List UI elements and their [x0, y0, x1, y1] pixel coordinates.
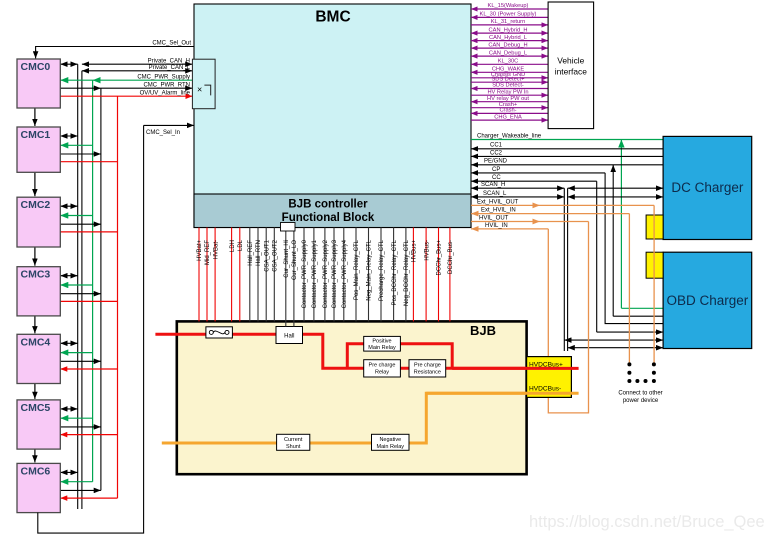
wire KL_31_return [471, 19, 548, 25]
wire SCAN bus verticals [564, 188, 567, 351]
wire CAN_Debug_L [471, 50, 548, 56]
svg-text:Precharge_Relay_CTL: Precharge_Relay_CTL [379, 239, 385, 301]
wire CMC5 CAN link [60, 408, 77, 410]
svg-text:Pos_Main_Relay_CTL: Pos_Main_Relay_CTL [354, 239, 360, 300]
resistor Pre charge Resistance [409, 360, 446, 377]
watermark [529, 513, 765, 531]
svg-text:Ext_HVIL_OUT: Ext_HVIL_OUT [477, 199, 519, 205]
svg-text:https://blog.csdn.net/Bruce_Qe: https://blog.csdn.net/Bruce_Qee [529, 513, 765, 531]
wire Cur_Shunt_LO [292, 228, 298, 327]
wire Cur_Shunt_Hi [284, 228, 290, 327]
wire CC [471, 175, 597, 181]
svg-text:Connect to other: Connect to other [618, 390, 662, 396]
svg-text:CMC0: CMC0 [21, 61, 51, 73]
wire CMC5 PWR supply link [60, 417, 92, 419]
svg-text:Vehicle: Vehicle [557, 56, 584, 66]
svg-text:LDH: LDH [230, 240, 236, 252]
wire CHG_WAKE [471, 67, 548, 73]
wire CMC6 CAN link [60, 471, 77, 473]
wire Ext_HVIL_IN vertical [628, 214, 630, 365]
wire SCAN_L to OBD [568, 347, 664, 349]
wire CMC_PWR_RTN vertical bus [100, 88, 102, 490]
block CMC6 [17, 463, 60, 512]
wire CMC2 PWR supply link [60, 215, 92, 217]
wire CMC1 alarm link [60, 161, 117, 163]
wire CMC1 to CMC2 daisy chain [34, 172, 36, 196]
wire PE/GND branch to OBD [613, 165, 663, 316]
svg-text:Main Relay: Main Relay [377, 444, 405, 450]
svg-text:Cur_Shunt_Hi: Cur_Shunt_Hi [284, 240, 290, 278]
wire CMC6 PWR supply link [60, 481, 92, 483]
wire HVBat+ [197, 228, 203, 322]
wire CMC4 alarm link [60, 368, 117, 370]
svg-text:HVBus+: HVBus+ [412, 240, 418, 263]
wire Charger_Wakeable branch to OBD [621, 140, 663, 309]
svg-text:KL_31_return: KL_31_return [491, 19, 525, 25]
wire CP branch to OBD [605, 173, 663, 324]
svg-text:CAN_Hybrid_L: CAN_Hybrid_L [489, 35, 527, 41]
svg-text:Contactor_PWR_Supply3: Contactor_PWR_Supply3 [332, 239, 338, 308]
svg-text:×: × [197, 85, 202, 95]
wire CP [471, 167, 605, 173]
wire CMC3 to CMC4 daisy chain [34, 316, 36, 333]
wire HVDC bus plus (thick red) [155, 334, 526, 368]
node Cur_Shunt pair bracket [281, 223, 296, 232]
wire HVBat- [213, 228, 219, 322]
node power-device continuation dots [618, 362, 662, 403]
wire Pos_DCChr_Relay_CTL [392, 228, 398, 322]
wire CMC_PWR_RTN [101, 82, 192, 88]
svg-text:HVIL_OUT: HVIL_OUT [479, 215, 509, 221]
fuse F1 [206, 327, 233, 338]
block CMC2 [17, 197, 60, 247]
wire Private_CAN_L [82, 65, 192, 71]
wire HVIL_IN [471, 223, 548, 229]
wire CMC_PWR_Supply vertical bus [92, 80, 94, 482]
svg-text:interface: interface [555, 67, 587, 77]
wire CC branch to OBD [597, 181, 663, 332]
svg-text:Pos_DCChr_Relay_CTL: Pos_DCChr_Relay_CTL [392, 239, 398, 305]
svg-text:HVIL_IN: HVIL_IN [485, 223, 508, 229]
relay Negative Main Relay [372, 434, 410, 450]
svg-text:Pre charge: Pre charge [414, 363, 441, 369]
wire CAN_Debug_H [471, 42, 548, 48]
wire CMC0 alarm link [60, 95, 117, 97]
relay Positive Main Relay [364, 336, 401, 351]
wire Contactor_PWR_Supply4 [342, 228, 348, 322]
wire LDL [238, 228, 244, 322]
svg-text:Hall_RTN: Hall_RTN [256, 240, 262, 266]
svg-text:CSA_OUT2: CSA_OUT2 [273, 239, 279, 271]
svg-text:Neg_DCChr_Relay_CTL: Neg_DCChr_Relay_CTL [404, 239, 410, 306]
wire CMC3 CAN link [60, 275, 77, 277]
svg-text:Resistance: Resistance [414, 369, 441, 375]
wire CMC0 PWR supply link [60, 79, 92, 81]
wire CSA_OUT1 [264, 228, 270, 322]
wire CSA_OUT2 [273, 228, 279, 322]
svg-text:OV/UV_Alarm_line: OV/UV_Alarm_line [140, 90, 191, 96]
svg-text:Hall_REF: Hall_REF [248, 240, 254, 266]
wire Ext_HVIL_IN [471, 208, 629, 214]
wire CMC_Sel_In return loop [38, 125, 194, 533]
wire CMC4 PWR return link [60, 360, 101, 362]
svg-text:BJB: BJB [470, 323, 496, 338]
svg-text:CMC5: CMC5 [21, 402, 51, 414]
svg-text:SDS Detect-: SDS Detect- [492, 83, 524, 89]
wire HVBus+ [412, 228, 418, 322]
svg-text:CMC6: CMC6 [21, 465, 51, 477]
svg-text:SDS Detect+: SDS Detect+ [491, 76, 525, 82]
wire Charger_Wakeable_line [471, 133, 663, 139]
block CMC1 [17, 127, 60, 172]
svg-text:CMC_Sel_In: CMC_Sel_In [146, 130, 180, 136]
wire Mid_REF [205, 228, 211, 322]
svg-text:KL_15(Wakeup): KL_15(Wakeup) [488, 3, 529, 9]
svg-text:HVBat-: HVBat- [213, 240, 219, 259]
svg-text:CAN_Debug_L: CAN_Debug_L [489, 50, 527, 56]
svg-text:KL_30C: KL_30C [498, 59, 519, 65]
block BJB controller Functional Block band [194, 194, 471, 228]
svg-text:CMC_Sel_Out: CMC_Sel_Out [152, 40, 191, 46]
wire SCAN_L [471, 191, 663, 197]
wire OV/UV alarm vertical bus [117, 96, 119, 498]
wire SCAN_H to OBD [564, 339, 663, 341]
svg-text:Negative: Negative [379, 437, 401, 443]
wire CMC1 PWR return link [60, 153, 101, 155]
wire Chassis GND [471, 72, 548, 78]
wire OV/UV_Alarm_line [118, 90, 193, 96]
wire Contactor_PWR_Supply1 [312, 228, 318, 322]
svg-text:Contactor_PWR_Supply2: Contactor_PWR_Supply2 [323, 239, 329, 308]
wire Contactor_PWR_Supply3 [332, 228, 338, 322]
wire CMC3 PWR return link [60, 293, 101, 295]
svg-text:CMC3: CMC3 [21, 269, 51, 281]
wire CMC6 PWR return link [60, 489, 101, 491]
wire Neg_Main_Relay_CTL [367, 228, 373, 322]
wire CAN_Hybrid_H [471, 27, 548, 33]
svg-text:Neg_Main_Relay_CTL: Neg_Main_Relay_CTL [367, 239, 373, 300]
wire CMC4 PWR supply link [60, 352, 92, 354]
wire HVIL loop through BJB [548, 222, 588, 413]
svg-text:CMC4: CMC4 [21, 336, 51, 348]
wire Hall_REF [248, 228, 254, 322]
wire DCChr_Bus- [448, 228, 454, 322]
wire LDH [230, 228, 236, 322]
block Hall sensor [276, 327, 303, 344]
wire Hall_RTN [256, 228, 262, 322]
svg-text:HV Relay PW In: HV Relay PW In [487, 89, 528, 95]
svg-text:Current: Current [284, 437, 303, 443]
svg-text:CAN_Debug_H: CAN_Debug_H [488, 42, 527, 48]
svg-text:Contactor_PWR_Supply4: Contactor_PWR_Supply4 [342, 239, 348, 308]
block Vehicle interface [548, 2, 594, 129]
wire CMC5 to CMC6 daisy chain [34, 449, 36, 462]
svg-text:CMC2: CMC2 [21, 199, 51, 211]
wire SDS Detect- [471, 83, 548, 89]
svg-text:OBD Charger: OBD Charger [667, 293, 749, 308]
wire Neg_DCChr_Relay_CTL [404, 228, 410, 322]
block CMC4 [17, 334, 60, 383]
svg-text:LDL: LDL [238, 239, 244, 251]
svg-text:Main Relay: Main Relay [368, 345, 396, 351]
wire CMC2 to CMC3 daisy chain [34, 247, 36, 266]
svg-text:CC1: CC1 [490, 143, 503, 149]
svg-text:Charger_Wakeable_line: Charger_Wakeable_line [477, 133, 542, 139]
wire CAN_Hybrid_L [471, 35, 548, 41]
svg-text:Private_CAN_L: Private_CAN_L [149, 65, 191, 71]
wire CMC1 CAN link [60, 135, 77, 137]
wire CMC5 PWR return link [60, 426, 101, 428]
svg-text:DCChr_Bus+: DCChr_Bus+ [437, 240, 443, 276]
wire Private_CAN_H [82, 58, 192, 64]
node OBD Charger HVIL connector [646, 252, 663, 278]
svg-text:Private_CAN_H: Private_CAN_H [148, 58, 190, 64]
svg-text:SCAN_H: SCAN_H [481, 182, 505, 188]
svg-text:CMC_PWR_Supply: CMC_PWR_Supply [137, 74, 190, 80]
wire CMC3 PWR supply link [60, 284, 92, 286]
svg-text:CMC1: CMC1 [21, 129, 51, 141]
wire CMC_Sel_Out [36, 40, 194, 58]
block Current Shunt [277, 434, 310, 450]
svg-text:BMC: BMC [315, 9, 350, 26]
svg-text:Mid_REF: Mid_REF [205, 240, 211, 265]
svg-text:Cur_Shunt_LO: Cur_Shunt_LO [292, 240, 298, 280]
svg-text:DCChr_Bus-: DCChr_Bus- [448, 240, 454, 274]
wire CMC4 to CMC5 daisy chain [34, 384, 36, 399]
wire Private CAN bus vertical pair [78, 64, 82, 509]
svg-text:Contactor_PWR_Supply0: Contactor_PWR_Supply0 [302, 239, 308, 308]
block BMC [194, 4, 471, 228]
wire HVIL_OUT [471, 215, 589, 221]
svg-text:CAN_Hybrid_H: CAN_Hybrid_H [489, 27, 528, 33]
wire KL_30 (Power Supply) [471, 12, 548, 18]
svg-text:HVBat+: HVBat+ [197, 240, 203, 261]
wire CMC0 to CMC1 daisy chain [34, 108, 36, 126]
svg-text:CSA_OUT1: CSA_OUT1 [264, 239, 270, 271]
svg-text:Pre charge: Pre charge [369, 363, 396, 369]
wire CMC0 PWR return link [60, 87, 101, 89]
svg-text:CMC_PWR_RTN: CMC_PWR_RTN [143, 82, 190, 88]
wire HV relay PW out [471, 96, 548, 102]
wire DCChr_Bus+ [437, 228, 443, 322]
svg-text:Contactor_PWR_Supply1: Contactor_PWR_Supply1 [312, 239, 318, 308]
wire HV Relay PW In [471, 89, 548, 95]
node DC Charger HVIL connector [646, 215, 663, 239]
block CMC5 [17, 400, 60, 449]
svg-text:DC Charger: DC Charger [671, 180, 744, 195]
block BJB [177, 321, 527, 474]
wire CHG_ENA [471, 114, 548, 120]
wire CMC3 alarm link [60, 300, 117, 302]
wire CMC_PWR_Supply [93, 74, 193, 80]
node HVDCBus terminal box [527, 357, 572, 398]
svg-text:Relay: Relay [375, 369, 389, 375]
svg-text:Hall: Hall [284, 333, 294, 339]
wire Ext_HVIL_OUT vertical [653, 205, 655, 364]
svg-text:CP: CP [492, 167, 500, 173]
wire CC2 [471, 150, 663, 156]
wire CMC2 CAN link [60, 205, 77, 207]
svg-text:HVBus-: HVBus- [424, 240, 430, 261]
svg-text:PE/GND: PE/GND [484, 159, 508, 165]
svg-text:KL_30 (Power Supply): KL_30 (Power Supply) [480, 12, 537, 18]
wire Ext_HVIL_OUT [471, 199, 654, 205]
svg-text:Positive: Positive [372, 339, 391, 345]
wire HVDCBus- exit [426, 392, 578, 395]
wire CMC5 alarm link [60, 434, 117, 436]
wire HVDC bus minus (thick amber) [162, 393, 527, 443]
svg-text:Crash-: Crash- [499, 108, 516, 114]
wire CMC0 CAN link [60, 63, 77, 65]
block OBD Charger [663, 252, 752, 348]
block DC Charger [663, 136, 752, 239]
wire CMC6 alarm link [60, 497, 117, 499]
wire CMC2 PWR return link [60, 223, 101, 225]
wire Contactor_PWR_Supply2 [323, 228, 329, 322]
svg-text:CHG_ENA: CHG_ENA [494, 114, 522, 120]
wire KL_30C [471, 59, 548, 65]
svg-text:CC2: CC2 [490, 150, 503, 156]
wire CMC1 PWR supply link [60, 144, 92, 146]
wire Crash+ [471, 102, 548, 108]
svg-text:SCAN_L: SCAN_L [483, 191, 507, 197]
svg-text:BJB controller: BJB controller [288, 199, 368, 211]
wire SCAN_H [471, 182, 663, 188]
node CAN mux box on BMC edge [192, 59, 215, 108]
block CMC0 [17, 59, 60, 108]
wire KL_15(Wakeup) [471, 3, 548, 9]
wire SDS Detect+ [471, 76, 548, 82]
block CMC3 [17, 267, 60, 316]
wire Precharge_Relay_CTL [379, 228, 385, 322]
wire HVDCBus+ exit [452, 367, 578, 370]
wire Contactor_PWR_Supply0 [302, 228, 308, 322]
wire HVBus- [424, 228, 430, 322]
wire Pos_Main_Relay_CTL [354, 228, 360, 322]
wire CMC4 CAN link [60, 342, 77, 344]
svg-text:HVDCBus-: HVDCBus- [529, 385, 561, 392]
wire PE/GND [471, 159, 663, 165]
relay Pre charge Relay [364, 360, 401, 377]
wire CMC2 alarm link [60, 231, 117, 233]
svg-text:Shunt: Shunt [286, 444, 301, 450]
wire CC1 [471, 143, 663, 149]
svg-text:CC: CC [492, 175, 501, 181]
svg-text:power device: power device [623, 398, 659, 404]
svg-text:Ext_HVIL_IN: Ext_HVIL_IN [481, 208, 516, 214]
wire Crash- [471, 108, 548, 114]
svg-text:Functional Block: Functional Block [282, 212, 375, 224]
